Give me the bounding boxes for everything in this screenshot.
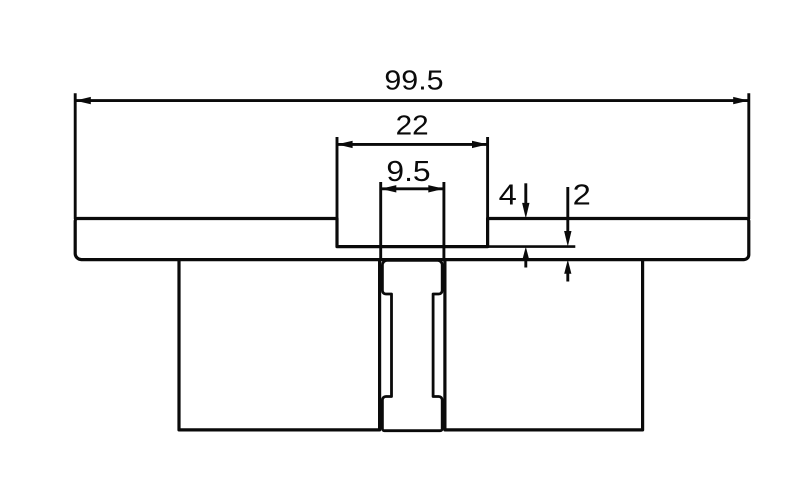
dimension 22 : left arrowhead <box>337 141 353 148</box>
dimension 22 : extension line left (recess wall extended) <box>336 137 339 247</box>
right block <box>445 260 643 430</box>
left block <box>179 260 380 430</box>
svg-text:9.5: 9.5 <box>386 156 430 188</box>
dimension 9.5 : right arrowhead <box>428 185 444 192</box>
dimension 9.5 : extension line left <box>379 182 382 260</box>
svg-text:2: 2 <box>573 179 591 211</box>
dimension 99.5 : left arrowhead <box>75 97 91 104</box>
dimension 99.5 : dimension line <box>75 99 749 102</box>
dimension 22 : extension line right <box>486 137 489 247</box>
dimension 2 : upper leader with down arrowhead <box>566 187 569 233</box>
dimension 4 : lower leader with up arrowhead <box>524 259 527 268</box>
dimension 99.5 : extension line left <box>74 93 77 219</box>
dimension 99.5 : right arrowhead <box>733 97 749 104</box>
svg-text:4: 4 <box>499 179 517 211</box>
dimension 22 : right arrowhead <box>472 141 488 148</box>
dimension 22 : dimension line <box>337 143 488 146</box>
dimension 99.5 : extension line right <box>747 93 750 219</box>
dimension 9.5 : dimension line <box>381 187 444 190</box>
dimension 4 : upper leader with down arrowhead <box>524 183 527 205</box>
dimension 9.5 : left arrowhead <box>381 185 397 192</box>
dimension 2 : lower leader with up arrowhead <box>566 273 569 282</box>
dimension 2 : recess floor extension line <box>488 245 576 248</box>
center channel piece <box>382 260 442 430</box>
svg-text:22: 22 <box>396 110 429 141</box>
top plate outline with center recess <box>75 219 749 260</box>
svg-text:99.5: 99.5 <box>384 65 443 96</box>
dimension 9.5 : extension line right <box>442 182 445 260</box>
